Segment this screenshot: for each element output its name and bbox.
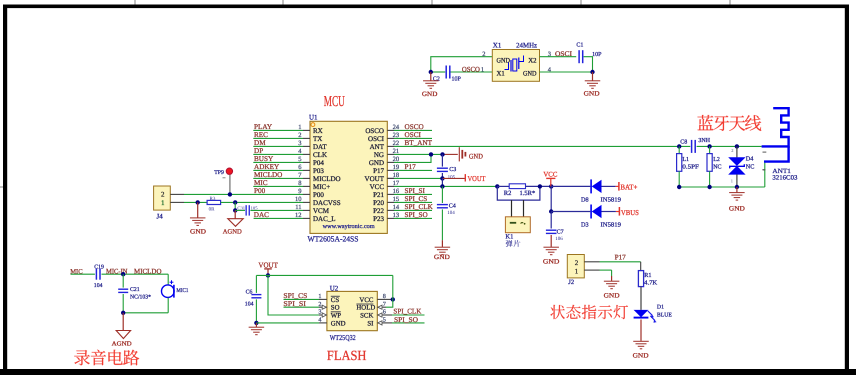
svg-text:MIC1: MIC1	[176, 288, 188, 294]
svg-text:P03: P03	[313, 167, 324, 175]
svg-text:FLASH: FLASH	[327, 349, 367, 364]
wire U1 pin 8	[303, 185, 310, 187]
wire U1 pin17 rail	[394, 185, 497, 187]
svg-text:1: 1	[161, 199, 165, 207]
node junction C21 bottom	[121, 311, 125, 315]
svg-text:L2: L2	[713, 157, 720, 163]
svg-text:SPI_CLK: SPI_CLK	[393, 307, 422, 315]
wire U1 pin 1	[303, 129, 310, 131]
title recording circuit	[74, 350, 139, 366]
wire U1 pin 6	[303, 169, 310, 171]
svg-text:R1: R1	[644, 272, 651, 279]
node junction rail D4	[735, 185, 739, 189]
led D1	[634, 310, 649, 317]
wire U1 pin 11	[303, 209, 310, 211]
svg-text:VOUT: VOUT	[258, 261, 278, 270]
svg-text:P21: P21	[373, 191, 384, 199]
wire U1 pin 20	[387, 161, 394, 163]
svg-text:SO: SO	[331, 305, 340, 312]
node junction R2 left	[495, 184, 499, 188]
capacitor C6	[251, 294, 261, 296]
wire VCC down to D3 row	[550, 186, 552, 211]
svg-text:OSCO: OSCO	[462, 65, 480, 73]
wire flash gnd row	[256, 322, 319, 324]
svg-text:P17: P17	[405, 163, 417, 171]
node junction L1	[677, 144, 681, 148]
wire U1 pin 18	[387, 177, 394, 179]
wire U1 pin 16	[387, 193, 394, 195]
svg-text:GND: GND	[584, 90, 600, 97]
svg-text:MIC+: MIC+	[313, 183, 330, 191]
wire U2 pin4	[319, 322, 327, 324]
antenna ANT1	[762, 108, 789, 146]
svg-text:C21: C21	[130, 287, 140, 293]
capacitor C8	[691, 140, 693, 153]
node junction pin8	[391, 297, 395, 301]
svg-text:GND: GND	[331, 320, 346, 327]
node junction L2	[707, 144, 711, 148]
svg-text:TX: TX	[313, 135, 322, 143]
ground AGND	[122, 313, 124, 331]
svg-text:U1: U1	[309, 114, 318, 122]
svg-text:P04: P04	[313, 159, 324, 167]
svg-text:IN5819: IN5819	[601, 222, 622, 229]
node junction TP9	[228, 192, 232, 196]
capacitor C19	[95, 269, 97, 280]
svg-text:MICLDO: MICLDO	[313, 175, 341, 183]
wire pin4	[540, 71, 593, 73]
svg-text:VCC: VCC	[543, 171, 557, 179]
wire U1 pin 21	[387, 153, 394, 155]
svg-text:TP9: TP9	[214, 170, 224, 176]
svg-text:X1: X1	[497, 71, 505, 78]
ground flag GND	[458, 147, 460, 161]
svg-text:GND: GND	[523, 71, 537, 78]
svg-text:R2: R2	[504, 190, 512, 197]
wire MIC to C19	[71, 273, 95, 275]
node junction VCC	[549, 184, 553, 188]
svg-text:GND: GND	[604, 293, 620, 300]
title bluetooth antenna	[698, 115, 762, 131]
node junction VOUT flash	[266, 273, 270, 277]
wire U1 pin 23	[387, 137, 394, 139]
svg-text:1: 1	[481, 66, 484, 73]
wire K1 bypass loop	[497, 186, 540, 200]
svg-text:NC: NC	[746, 163, 755, 170]
svg-text:GND: GND	[422, 91, 438, 98]
svg-text:C2: C2	[433, 77, 440, 83]
connector J4	[154, 186, 171, 210]
svg-text:104: 104	[447, 210, 455, 216]
svg-text:105: 105	[448, 174, 456, 180]
capacitor C7	[550, 212, 552, 229]
wire U1 pin 5	[303, 161, 310, 163]
svg-text:2: 2	[161, 191, 165, 199]
wire pin3 OSCI to C1	[540, 56, 577, 58]
svg-text:C4: C4	[449, 204, 456, 210]
svg-text:DAC_L: DAC_L	[313, 215, 336, 223]
wire U1 pin18 to VOUT port	[387, 177, 394, 179]
svg-text:3216C03: 3216C03	[772, 175, 797, 182]
svg-text:L1: L1	[682, 157, 689, 163]
svg-text:BAT+: BAT+	[620, 182, 637, 191]
svg-text:K1: K1	[505, 233, 513, 240]
svg-text:DM: DM	[254, 139, 266, 147]
svg-text:10P: 10P	[452, 77, 462, 83]
wire U2 pin2	[284, 306, 320, 308]
svg-text:C6: C6	[246, 290, 253, 296]
microphone MIC1	[167, 274, 169, 285]
svg-text:D1: D1	[657, 305, 664, 311]
svg-text:P17: P17	[615, 254, 627, 262]
svg-text:J4: J4	[157, 213, 164, 221]
diode D3	[590, 205, 592, 219]
wire to R1	[640, 262, 642, 271]
svg-text:P20: P20	[373, 199, 384, 207]
svg-text:2: 2	[318, 301, 321, 308]
node junction DACVSS	[233, 200, 237, 204]
svg-text:1: 1	[731, 178, 733, 183]
wire MIC-IN	[102, 273, 169, 275]
svg-text:VCM: VCM	[313, 207, 330, 215]
svg-text:HOLD: HOLD	[356, 305, 375, 312]
wire U1 pin 9	[303, 193, 310, 195]
wire D3 to VBUS	[602, 211, 616, 213]
wire U1 pin 2	[303, 137, 310, 139]
wire mic bottom	[123, 312, 168, 314]
svg-text:MCU: MCU	[324, 94, 345, 110]
svg-text:1.5R*: 1.5R*	[520, 190, 536, 197]
svg-text:SPI_SI: SPI_SI	[405, 187, 426, 195]
node junction D3 row	[549, 209, 553, 213]
wire antenna pin2 link	[764, 163, 766, 187]
wire VCC to D8	[551, 185, 590, 187]
wire LED to gnd	[640, 320, 642, 341]
svg-text:P23: P23	[373, 215, 384, 223]
wire U1 pin 7	[303, 177, 310, 179]
wire to D3	[551, 211, 590, 213]
svg-text:MICLDO: MICLDO	[254, 171, 282, 179]
wire U2 pin8 VCC	[377, 298, 393, 300]
svg-text:GND: GND	[543, 258, 560, 265]
connector J2	[567, 255, 584, 278]
title status indicator	[550, 305, 628, 319]
wire D8 to BAT+	[602, 185, 616, 187]
node junction rail L1	[677, 185, 681, 189]
svg-text:VBUS: VBUS	[621, 208, 639, 217]
ground	[611, 276, 613, 281]
wire U1 pin21 to GND flag	[394, 153, 443, 155]
wire R1 to LED	[640, 287, 642, 310]
svg-text:C8: C8	[680, 140, 687, 146]
capacitor C3	[441, 154, 443, 166]
svg-text:2: 2	[575, 259, 579, 267]
svg-text:VOUT: VOUT	[468, 174, 486, 183]
ground	[633, 340, 649, 342]
svg-text:SPI_SO: SPI_SO	[394, 316, 418, 324]
crystal X1	[492, 50, 539, 82]
svg-text:2: 2	[731, 148, 733, 153]
svg-text:GND: GND	[434, 254, 450, 261]
svg-text:VOUT: VOUT	[365, 175, 385, 183]
svg-text:BUSY: BUSY	[254, 155, 274, 163]
svg-text:C1: C1	[576, 43, 583, 49]
svg-text:SPI_SO: SPI_SO	[405, 211, 428, 219]
label K1 tanpian	[506, 240, 521, 247]
svg-text:SPI_CS: SPI_CS	[405, 195, 428, 203]
svg-text:DACVSS: DACVSS	[313, 199, 341, 207]
wire C8 to antenna feed	[697, 145, 762, 147]
wire U2 pin1	[284, 298, 320, 300]
wire U1 pin 24	[387, 129, 394, 131]
ground	[736, 187, 738, 192]
wire rail down to pin8	[392, 275, 394, 299]
capacitor C2	[431, 71, 445, 73]
svg-text:OSCI: OSCI	[405, 131, 422, 139]
node junction C21 top	[121, 272, 125, 276]
capacitor C31	[235, 209, 245, 211]
wire U1 pin 14	[387, 209, 394, 211]
node junction C6 bottom	[254, 321, 258, 325]
node junction C2	[429, 70, 433, 74]
node junction pin21	[429, 152, 433, 156]
ground	[550, 235, 552, 247]
wire U1 pin 4	[303, 153, 310, 155]
svg-text:WP: WP	[331, 312, 341, 319]
svg-text:DAC: DAC	[254, 211, 269, 219]
svg-text:GND: GND	[469, 152, 483, 160]
inductor L1	[678, 146, 680, 153]
ground	[430, 72, 432, 81]
wire U2 pin3	[319, 314, 327, 316]
wire U1 pin 13	[387, 217, 394, 219]
resistor R2	[497, 185, 509, 187]
svg-text:GND: GND	[633, 352, 649, 359]
svg-text:MICLDO: MICLDO	[134, 267, 162, 275]
svg-text:104: 104	[94, 283, 103, 289]
svg-text:BT_ANT: BT_ANT	[405, 139, 433, 147]
wire antenna ground rail	[679, 186, 765, 188]
node junction gnd tap	[196, 200, 200, 204]
wire U1 pin 10	[303, 201, 310, 203]
svg-text:CLK: CLK	[313, 151, 327, 159]
svg-text:10P: 10P	[592, 52, 602, 58]
wire U2 pin7 HOLD link	[386, 299, 393, 307]
svg-text:GND: GND	[369, 159, 384, 167]
wire pin1 OSCO	[450, 71, 492, 73]
svg-text:AGND: AGND	[223, 228, 242, 235]
svg-text:CS: CS	[331, 297, 340, 304]
svg-text:WT25Q32: WT25Q32	[330, 333, 356, 342]
wire BT_ANT	[394, 145, 690, 147]
wire U1 pin 17	[387, 185, 394, 187]
svg-text:U2: U2	[330, 284, 339, 292]
ground AGND	[234, 210, 236, 218]
svg-text:GND: GND	[729, 205, 745, 212]
svg-text:MIC: MIC	[254, 179, 268, 187]
wire WP link	[268, 275, 319, 315]
port BAT+	[618, 182, 620, 191]
wire U1 pin 3	[303, 145, 310, 147]
inductor L2	[709, 146, 711, 153]
svg-text:GND: GND	[190, 228, 206, 235]
svg-text:ANT: ANT	[370, 143, 385, 151]
ground	[197, 202, 199, 217]
wire U2 pin6 SPI_CLK	[377, 314, 392, 316]
node junction R2 right	[538, 184, 542, 188]
svg-text:OSCI: OSCI	[368, 135, 385, 143]
svg-text:P17: P17	[373, 167, 384, 175]
svg-text:P00: P00	[254, 187, 266, 195]
node junction VOUT	[440, 176, 444, 180]
svg-text:X1: X1	[493, 42, 502, 50]
wire VOUT rail	[256, 274, 392, 276]
svg-text:104: 104	[245, 302, 254, 308]
node junction D4	[735, 144, 739, 148]
wire J2 pin1 to gnd	[584, 269, 599, 271]
svg-text:SI: SI	[367, 320, 374, 327]
svg-text:SCK: SCK	[360, 312, 373, 319]
wire J4 pin2 to U1 pin9 P00	[170, 193, 184, 195]
svg-text:NG: NG	[374, 151, 384, 159]
node junction C4	[440, 184, 444, 188]
svg-text:C3: C3	[449, 167, 456, 173]
diode D8	[590, 179, 592, 193]
svg-text:C19: C19	[94, 264, 104, 270]
svg-text:24MHz: 24MHz	[516, 42, 537, 50]
svg-text:OSCO: OSCO	[405, 123, 424, 131]
wire U2 pin5 SPI_SO	[377, 322, 392, 324]
svg-text:R3: R3	[210, 196, 216, 202]
svg-text:ADKEY: ADKEY	[254, 163, 280, 171]
svg-text:P00: P00	[313, 191, 324, 199]
svg-text:1: 1	[318, 293, 321, 300]
wire U1 pin 15	[387, 201, 394, 203]
tvs diode D4	[736, 146, 738, 157]
testpoint TP9	[229, 175, 231, 195]
svg-text:IN5819: IN5819	[601, 196, 622, 203]
wire R3 to U1 pin10	[221, 201, 303, 203]
node junction VCM	[233, 208, 237, 212]
ground	[255, 323, 257, 327]
svg-text:REC: REC	[254, 131, 268, 139]
wire rail to C6	[255, 275, 257, 293]
resistor R3	[207, 200, 221, 204]
svg-text:RX: RX	[313, 127, 323, 135]
wire VOUT to VCC row	[441, 178, 443, 186]
capacitor C1	[578, 50, 580, 63]
svg-text:BLUE: BLUE	[657, 313, 672, 319]
wire U1 pin 19	[387, 169, 394, 171]
svg-text:AGND: AGND	[112, 340, 133, 347]
switch K1 spring plate	[511, 200, 513, 217]
wire J2 pin2 P17	[584, 261, 599, 263]
svg-text:0R: 0R	[209, 207, 216, 213]
svg-text:J2: J2	[568, 279, 574, 286]
wire X1 pin2 to C2 node	[431, 57, 493, 72]
svg-text:C7: C7	[557, 229, 564, 235]
wire U1 pin20 up	[394, 154, 431, 162]
node junction right	[590, 70, 594, 74]
svg-text:X2: X2	[528, 57, 537, 64]
svg-text:OSCO: OSCO	[365, 127, 384, 135]
svg-text:DAT: DAT	[313, 143, 327, 151]
svg-text:3: 3	[318, 309, 321, 316]
wire C1 to gnd corner	[584, 57, 593, 72]
svg-text:NC: NC	[713, 164, 721, 170]
wire vertical to VCM row	[234, 202, 236, 210]
svg-text:www.waytronic.com: www.waytronic.com	[323, 223, 375, 230]
capacitor C21	[122, 274, 124, 287]
svg-text:P22: P22	[373, 207, 384, 215]
port VOUT	[464, 174, 466, 181]
svg-text:DP: DP	[254, 147, 263, 155]
wire DAC to U1 pin12	[254, 217, 303, 219]
svg-text:D3: D3	[581, 222, 589, 229]
svg-text:VCC: VCC	[359, 297, 373, 304]
svg-text:4: 4	[318, 317, 321, 324]
svg-text:WT2605A-24SS: WT2605A-24SS	[308, 234, 359, 243]
svg-text:106: 106	[555, 236, 563, 242]
svg-text:D8: D8	[581, 196, 589, 203]
resistor R1	[638, 271, 643, 287]
mcu U1	[310, 121, 387, 233]
svg-text:4.7K: 4.7K	[644, 280, 658, 287]
svg-text:NC/103*: NC/103*	[130, 294, 151, 300]
ground	[592, 72, 594, 81]
flash U2	[327, 291, 377, 330]
svg-text:PLAY: PLAY	[254, 123, 273, 131]
capacitor C4	[441, 186, 443, 203]
port VBUS	[618, 207, 620, 216]
wire J4 pin1	[170, 201, 184, 203]
svg-text:VCC: VCC	[370, 183, 385, 191]
svg-text:C31: C31	[237, 206, 245, 211]
svg-text:3NH: 3NH	[698, 138, 710, 144]
svg-text:0.5PF: 0.5PF	[682, 164, 699, 170]
wire U1 pin 22	[387, 145, 394, 147]
svg-text:2: 2	[482, 51, 485, 58]
ground	[441, 209, 443, 240]
node junction rail L2	[707, 185, 711, 189]
svg-text:1: 1	[575, 267, 579, 275]
svg-text:D4: D4	[746, 156, 754, 163]
svg-text:SPI_CLK: SPI_CLK	[405, 203, 434, 211]
wire U1 pin 12	[303, 217, 310, 219]
